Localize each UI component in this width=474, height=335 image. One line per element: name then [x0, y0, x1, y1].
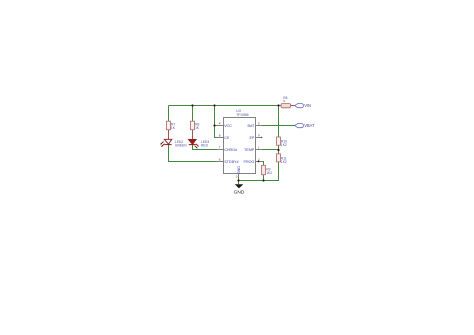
wire: R8 to LED3	[192, 130, 194, 140]
resistor R9 1K2	[262, 165, 273, 175]
wire: R8 column from rail to R8	[192, 106, 194, 122]
svg-text:VCC: VCC	[224, 124, 232, 128]
svg-text:PROG: PROG	[244, 160, 255, 164]
wire: VCC tap	[215, 125, 217, 127]
wire: R7 to LED2	[168, 130, 170, 140]
wire: top VCC rail	[169, 105, 281, 107]
op-amp U3 body TP4056	[224, 109, 256, 174]
pin 4 VCC	[217, 122, 233, 129]
LED3 RED	[189, 140, 210, 149]
svg-text:GND: GND	[237, 166, 241, 175]
pin 1 TEMP	[244, 146, 262, 153]
svg-text:CHRG#: CHRG#	[224, 148, 238, 152]
svg-text:1K2: 1K2	[266, 171, 272, 175]
svg-text:5: 5	[258, 122, 260, 126]
resistor R11 1K2	[277, 154, 287, 164]
wire: R9 down to bottom rail	[263, 175, 265, 181]
junction at rail/VCC column	[213, 104, 215, 106]
svg-text:CE: CE	[224, 136, 230, 140]
wire: GND pin down to ground	[238, 178, 240, 185]
pin 8 CE	[217, 134, 230, 141]
resistor R8 1K	[191, 121, 200, 130]
wire: BAT to VBAT tag	[262, 125, 295, 127]
svg-text:0: 0	[283, 99, 285, 103]
wire: rail down right column to R10	[278, 106, 280, 138]
wire: TEMP to divider	[262, 149, 279, 151]
junction at GND rail	[237, 179, 239, 181]
svg-text:VIN: VIN	[304, 103, 311, 108]
pin 9 EP (unconnected)	[249, 134, 262, 141]
svg-text:VBAT: VBAT	[304, 123, 315, 128]
svg-text:TP4056: TP4056	[236, 113, 248, 117]
pin 3 GND	[236, 166, 241, 179]
svg-text:1: 1	[258, 146, 260, 150]
pin 5 BAT	[247, 122, 262, 129]
pin 6 STDBY#	[217, 158, 240, 165]
svg-text:GREEN: GREEN	[175, 144, 187, 148]
wire: LED2 cathode down and right to STDBY#	[169, 145, 217, 162]
pin 2 PROG	[244, 158, 262, 165]
junction at TEMP divider	[277, 149, 279, 151]
netport VBAT	[295, 123, 315, 128]
wire: PROG to R9	[262, 162, 264, 166]
svg-text:STDBY#: STDBY#	[224, 160, 239, 164]
svg-text:TEMP: TEMP	[244, 148, 255, 152]
wire: R7 column from rail to R7	[168, 106, 170, 122]
svg-text:RED: RED	[201, 144, 209, 148]
resistor R10 1K2	[277, 137, 288, 147]
svg-text:1K2: 1K2	[281, 143, 287, 147]
svg-text:6: 6	[219, 158, 221, 162]
wire: R10 to R11	[278, 145, 280, 154]
wire: rail down to VCC and CE	[215, 106, 217, 138]
junction at VCC pin	[213, 124, 215, 126]
LED2 GREEN	[160, 139, 187, 147]
svg-text:1K2: 1K2	[281, 160, 287, 164]
svg-text:EP: EP	[249, 136, 254, 140]
wire: LED3 cathode down and right to CHRG#	[193, 145, 217, 150]
junction at R9 bottom rail	[262, 179, 264, 181]
resistor R7 1K	[167, 121, 176, 130]
svg-text:4: 4	[219, 122, 221, 126]
svg-text:BAT: BAT	[247, 124, 255, 128]
resistor R6 0	[281, 96, 295, 108]
svg-text:9: 9	[258, 134, 260, 138]
svg-text:8: 8	[219, 134, 221, 138]
svg-text:7: 7	[219, 146, 221, 150]
netport VIN	[295, 103, 311, 108]
wire: R11 down to bottom rail	[239, 162, 279, 181]
junction at rail/right column	[277, 104, 279, 106]
pin 7 CHRG#	[217, 146, 239, 153]
ground	[234, 184, 245, 195]
svg-text:GND: GND	[234, 189, 245, 195]
junction at rail/R8	[191, 104, 193, 106]
